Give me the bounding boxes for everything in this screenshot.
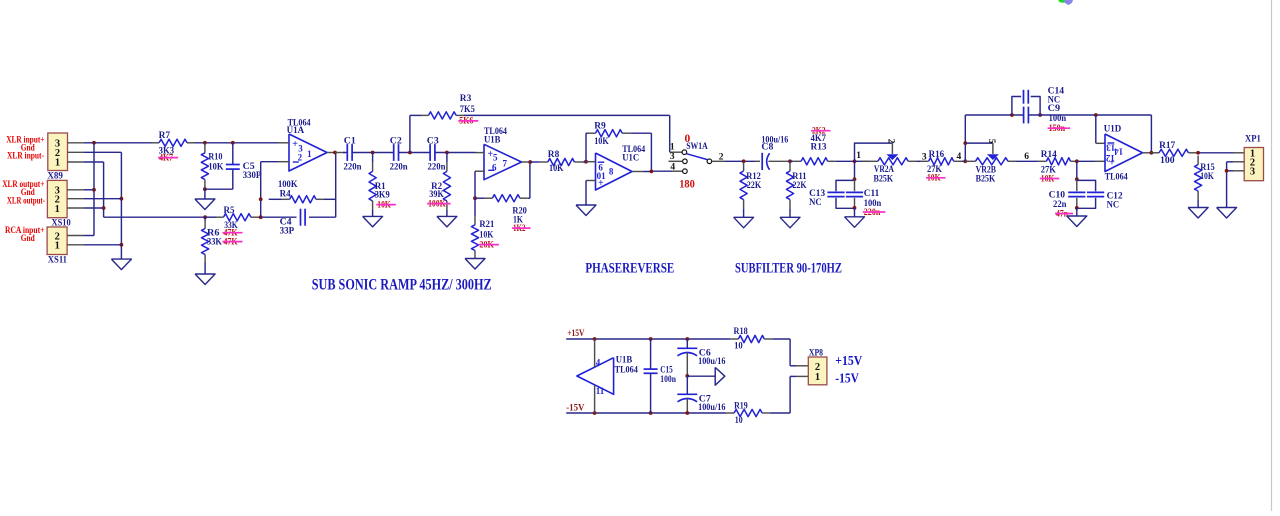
svg-text:10K: 10K [479, 230, 494, 240]
svg-text:C8: C8 [761, 142, 773, 152]
svg-text:R5: R5 [224, 206, 235, 216]
svg-text:B25K: B25K [976, 175, 996, 185]
ground below R11 [780, 209, 800, 228]
svg-text:R14: R14 [1041, 150, 1057, 160]
node U1B output junction [528, 160, 532, 164]
resistor R15 10K [1195, 156, 1216, 200]
svg-text:+15V: +15V [835, 353, 862, 368]
ground below XP1 [1217, 208, 1237, 219]
svg-text:XS11: XS11 [48, 255, 67, 265]
svg-text:3K9: 3K9 [375, 191, 390, 201]
wire X89.1 input- bus [84, 162, 205, 217]
ground below C10 [1067, 208, 1087, 227]
svg-text:U1B: U1B [616, 356, 633, 366]
ground gnd-bus [111, 259, 131, 270]
wire R3 branch vertical [410, 115, 422, 152]
op-amp U1B power pins TL064 [577, 339, 638, 413]
node C14 left junction [1010, 113, 1014, 117]
svg-text:R4: R4 [280, 189, 291, 199]
svg-text:10K: 10K [208, 162, 224, 172]
ground below R15 [1188, 200, 1208, 218]
wire X89.2 to gnd bus [84, 152, 121, 259]
resistor R14 27K [1038, 150, 1078, 184]
node XS10.1 junction [84, 206, 106, 210]
wire +15V rail [566, 338, 730, 340]
svg-text:U1B: U1B [484, 135, 501, 145]
wire -15V rail [566, 412, 726, 414]
node R4 left junction [259, 197, 263, 201]
net label Gnd (XLR input) [21, 144, 36, 154]
ground below R10 [195, 199, 215, 210]
ground below C11 [845, 208, 865, 227]
svg-text:39K: 39K [429, 190, 444, 200]
resistor R3 7K5 [421, 94, 479, 127]
wire R16 to VR2B pin4 [957, 152, 966, 162]
svg-text:TL064: TL064 [615, 366, 639, 376]
node U1C- junction [584, 160, 588, 164]
svg-text:1: 1 [55, 241, 60, 252]
svg-text:1: 1 [55, 158, 60, 169]
net label 0 [685, 133, 691, 145]
resistor R18 10 [730, 327, 772, 352]
svg-text:100u/16: 100u/16 [698, 403, 726, 413]
node C6 top junction [685, 337, 689, 341]
resistor R1 3K9 [369, 153, 396, 211]
svg-text:R9: R9 [594, 121, 606, 131]
ground below R6 [195, 263, 215, 285]
wire C2 to C3 [399, 152, 431, 154]
svg-text:7K5: 7K5 [460, 105, 475, 115]
svg-text:100n: 100n [660, 375, 676, 385]
node VR2B wiper junction [963, 141, 967, 145]
wire pin1 down to caps [854, 161, 856, 179]
svg-text:C2: C2 [390, 136, 402, 146]
svg-text:220n: 220n [390, 163, 409, 173]
node U1D output junction [1150, 151, 1154, 155]
wire VR2B pin6 to R14 [1016, 152, 1038, 162]
svg-text:220n: 220n [344, 163, 363, 173]
wire U1C+ to ground [585, 181, 587, 206]
svg-text:10K: 10K [1200, 172, 1214, 182]
wire R20 to U1B output [528, 162, 530, 198]
resistor R10 10K [201, 143, 224, 190]
svg-text:3: 3 [1250, 167, 1255, 178]
wire R9 to U1C output [650, 133, 652, 171]
svg-text:220n: 220n [428, 163, 447, 173]
resistor R2 39K [427, 153, 451, 211]
resistor R19 10 [726, 402, 770, 426]
svg-text:TL064: TL064 [1105, 173, 1128, 183]
node C5 top junction [231, 141, 235, 145]
svg-text:5: 5 [493, 153, 498, 163]
svg-text:+15V: +15V [567, 329, 584, 339]
resistor R12 22K [740, 162, 762, 209]
svg-text:180: 180 [679, 179, 695, 191]
capacitor C14 NC [1012, 86, 1064, 115]
wire X89.3 to R7 (input+ net) [84, 142, 152, 144]
node C11/C13 top junction [853, 177, 857, 181]
wire R3 to switch pin1 [464, 114, 670, 116]
wire R19 to XP8.1 [770, 376, 808, 413]
wire C3 to U1B+ [435, 152, 476, 154]
svg-text:C1: C1 [344, 136, 356, 146]
capacitor C13 NC [809, 180, 854, 208]
svg-text:0: 0 [685, 133, 691, 145]
wire R13 to VR2A [836, 160, 870, 162]
connector X89 (XLR input) [47, 133, 84, 182]
wire R17 to XP1.1 [1196, 152, 1244, 154]
net label XLR input- [7, 151, 44, 161]
wire U1D- branch [1096, 115, 1105, 143]
node C15 top junction [649, 337, 653, 341]
node U1B power pin11 junction [593, 411, 597, 415]
svg-text:NC: NC [809, 198, 822, 208]
node R20/R21 junction [473, 196, 477, 200]
resistor R9 10K [586, 121, 651, 147]
ground below R21 [465, 259, 485, 270]
net label XLR input+ [6, 135, 44, 145]
svg-text:C9: C9 [1048, 104, 1061, 114]
svg-text:Gnd: Gnd [21, 234, 36, 244]
svg-text:+: + [598, 178, 604, 189]
svg-text:33K: 33K [207, 238, 223, 248]
svg-text:6: 6 [492, 163, 497, 173]
svg-text:U1D: U1D [1104, 125, 1122, 135]
node C10/C12 top junction [1075, 177, 1079, 181]
capacitor C4 33P [261, 209, 336, 237]
node pin1 junction [853, 151, 862, 163]
resistor R13 4K7 [793, 127, 836, 165]
svg-text:11: 11 [596, 386, 605, 396]
svg-text:R21: R21 [479, 220, 494, 230]
svg-text:+: + [1109, 157, 1115, 168]
svg-text:SUBFILTER 90-170HZ: SUBFILTER 90-170HZ [735, 261, 842, 277]
svg-text:100u/16: 100u/16 [698, 357, 726, 367]
title SUBFILTER 90-170HZ [735, 261, 842, 277]
svg-text:R8: R8 [548, 150, 560, 160]
node R10 top junction [203, 141, 207, 145]
resistor R20 1K [475, 195, 531, 234]
connector XP1 [1244, 135, 1263, 181]
wire U1A output feedback vertical [335, 153, 337, 218]
svg-text:PHASEREVERSE: PHASEREVERSE [585, 261, 674, 277]
svg-text:1: 1 [815, 372, 820, 383]
capacitor C2 220n [390, 136, 409, 172]
capacitor C12 NC [1077, 180, 1123, 210]
ground below U1C [576, 205, 596, 216]
svg-text:1: 1 [670, 143, 675, 153]
net label Gnd (RCA input) [21, 234, 36, 244]
svg-text:7: 7 [503, 158, 508, 168]
net label XLR output- [7, 196, 45, 206]
node C11 bottom junction [853, 206, 857, 210]
node R5/R6 junction [203, 215, 207, 219]
capacitor C15 100n [644, 339, 677, 413]
net label 180 [679, 179, 695, 191]
resistor R21 10K [471, 198, 499, 258]
capacitor C8 100u/16 [755, 136, 790, 170]
node C4/R5 junction [259, 215, 263, 219]
capacitor C3 220n [427, 136, 446, 172]
svg-text:C3: C3 [427, 136, 439, 146]
node XS11.1 junction [84, 243, 123, 247]
op-amp U1D TL064 [1104, 125, 1152, 183]
net label -15V rail [566, 404, 584, 414]
svg-text:R19: R19 [734, 402, 748, 412]
wire U1A out to C1 [335, 152, 347, 154]
svg-text:-15V: -15V [566, 404, 584, 414]
svg-text:R10: R10 [208, 153, 222, 163]
svg-text:XLR output-: XLR output- [7, 196, 45, 206]
potentiometer VR2B B25K [965, 139, 1016, 185]
connector XS11 (RCA input) [47, 227, 84, 265]
wire R3 net down to SW pin1 [670, 115, 682, 152]
resistor R4 100K [269, 180, 336, 203]
net label +15V rail [567, 329, 584, 339]
svg-text:22K: 22K [747, 181, 762, 191]
wire SW pin2 to C8 [725, 160, 755, 162]
node XP1.3 junction [1225, 169, 1229, 173]
wire R7 to U1A+ [195, 142, 279, 144]
node U1C output junction [650, 170, 654, 174]
node C15 bottom junction [649, 411, 653, 415]
resistor R11 22K [786, 162, 807, 209]
wire U1C out to SW pin4 [643, 170, 673, 172]
ground below R1 [363, 210, 383, 227]
wire pin4 up to feedback line [965, 115, 1023, 161]
op-amp U1A TL064 [279, 118, 336, 171]
op-amp U1C TL064 [586, 145, 645, 190]
node R1 junction [371, 151, 375, 155]
title PHASEREVERSE [585, 261, 674, 277]
capacitor C11 100n [846, 179, 885, 218]
svg-text:4: 4 [957, 152, 962, 162]
node U1D- branch junction [1094, 113, 1098, 117]
svg-text:6: 6 [1024, 152, 1029, 162]
svg-text:10K: 10K [594, 137, 609, 147]
connector XS10 (XLR output) [47, 180, 84, 228]
svg-text:3: 3 [670, 152, 675, 162]
svg-text:XLR input-: XLR input- [7, 151, 44, 161]
wire U1D output + feedback corner [1151, 115, 1154, 153]
wire XP1.2 to ground [1227, 162, 1245, 208]
node C10 bottom junction [1075, 206, 1079, 210]
net label Gnd (XLR output) [21, 188, 36, 198]
svg-text:10K: 10K [549, 164, 564, 174]
svg-text:2: 2 [719, 152, 724, 162]
svg-text:C11: C11 [864, 189, 880, 199]
capacitor C1 220n [344, 136, 363, 172]
svg-text:-15V: -15V [835, 370, 859, 385]
resistor R6 33K [202, 217, 243, 262]
node R2 junction [445, 151, 449, 155]
node U1B power pin4 junction [593, 337, 597, 341]
wire R18 to XP8.2 [772, 339, 808, 366]
capacitor C10 22n [1049, 179, 1086, 219]
switch SW1A [669, 142, 726, 173]
svg-text:5: 5 [986, 139, 996, 144]
net label RCA input+ [5, 226, 44, 236]
wire VR2A pin3 to R16 [916, 152, 927, 162]
capacitor C7 100u/16 [677, 376, 725, 413]
svg-text:2: 2 [886, 139, 896, 144]
svg-text:NC: NC [1107, 201, 1120, 211]
svg-text:XP8: XP8 [809, 349, 823, 359]
svg-text:R16: R16 [929, 150, 945, 160]
resistor R8 10K [530, 150, 586, 174]
wire C9 to feedback corner [1028, 114, 1151, 116]
node R3 branch junction [408, 151, 412, 155]
title SUB SONIC RAMP 45HZ/ 300HZ [312, 277, 492, 294]
svg-text:4: 4 [596, 357, 601, 367]
op-amp U1B TL064 [475, 127, 530, 180]
net label +15V output [835, 353, 862, 368]
node pin4 junction [963, 159, 967, 163]
node C6/C7 mid junction [685, 374, 689, 378]
net label XLR output+ [2, 180, 44, 190]
wire XP1.3 to ground net [1227, 170, 1245, 172]
capacitor C5 330P [226, 143, 262, 189]
node XS10.3 junction [84, 188, 96, 192]
svg-text:330P: 330P [243, 171, 262, 181]
node C7 bottom junction [685, 411, 689, 415]
node input+ bus junction [92, 141, 96, 145]
wire R14 to U1D+ [1079, 160, 1106, 162]
svg-text:U1A: U1A [287, 126, 305, 136]
wire R10 bottom to C5 bottom [205, 188, 233, 190]
resistor R17 100 [1151, 141, 1196, 166]
resistor R16 27K [921, 150, 962, 184]
svg-text:R3: R3 [460, 94, 472, 104]
svg-text:U1C: U1C [622, 153, 639, 163]
resistor R5 33K [205, 206, 261, 238]
ground below R2 [437, 210, 457, 227]
svg-text:2: 2 [298, 153, 303, 163]
wire input+ vertical bus [84, 143, 94, 236]
capacitor C9 100n [1024, 104, 1071, 134]
svg-text:10: 10 [734, 342, 743, 352]
svg-text:SUB SONIC RAMP 45HZ/ 300HZ: SUB SONIC RAMP 45HZ/ 300HZ [312, 277, 492, 294]
resistor R7 3K3 [151, 131, 195, 163]
wire C1 to C2 [352, 152, 394, 154]
svg-text:4: 4 [670, 162, 675, 172]
node R11 junction [788, 159, 792, 163]
node R15 junction [1196, 151, 1200, 155]
node R12 junction [742, 159, 746, 163]
svg-text:1: 1 [856, 151, 861, 161]
svg-text:1: 1 [307, 149, 312, 159]
node R10/C5 bottom junction [203, 187, 207, 199]
node C10 junction [1075, 159, 1079, 163]
svg-text:B25K: B25K [874, 174, 894, 184]
wire C8 to R13 [790, 160, 793, 162]
svg-text:33P: 33P [280, 227, 295, 237]
svg-text:10: 10 [735, 416, 743, 426]
power arrow symbol [687, 367, 725, 385]
svg-text:R17: R17 [1159, 141, 1175, 151]
net label -15V output [835, 370, 859, 385]
svg-text:1: 1 [55, 204, 60, 215]
svg-text:13: 13 [1106, 142, 1116, 152]
svg-text:R7: R7 [159, 131, 171, 141]
node C14 right junction [1038, 113, 1042, 117]
potentiometer VR2A B25K [855, 139, 917, 185]
svg-text:XP1: XP1 [1245, 135, 1261, 145]
wire R9 branch vertical [585, 133, 587, 162]
svg-text:R13: R13 [811, 142, 827, 152]
svg-text:R18: R18 [734, 327, 748, 337]
wire U1B- to R20/R21 node [474, 171, 476, 198]
node XS10.2 junction [84, 197, 123, 201]
wire U1A- feedback left [261, 162, 279, 218]
wire C10 branch down [1076, 161, 1078, 179]
node U1A output junction [333, 151, 337, 155]
svg-text:100: 100 [1160, 156, 1175, 166]
svg-text:8: 8 [609, 167, 614, 177]
connector XP8 [808, 349, 827, 385]
capacitor C6 100u/16 [677, 339, 725, 376]
svg-text:22K: 22K [793, 181, 808, 191]
ground below R12 [734, 209, 754, 228]
